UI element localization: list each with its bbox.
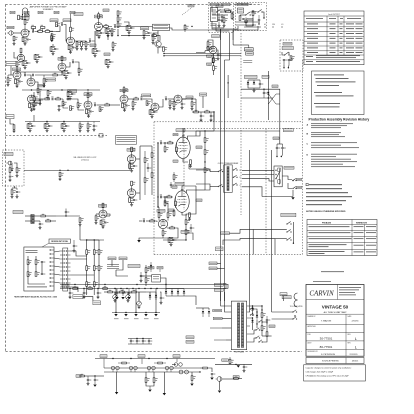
resistor R57 supply	[73, 288, 78, 290]
resistor R97 under output box	[11, 190, 13, 195]
output section dashed border right	[265, 129, 267, 255]
svg-text:80-77501: 80-77501	[320, 345, 333, 349]
tube V15 row2	[58, 63, 66, 71]
label EL34 b	[196, 199, 202, 201]
wire V10 screen	[188, 136, 197, 139]
reverb unit pin column	[51, 249, 54, 251]
wire standby to rail	[283, 65, 285, 68]
wire R17	[7, 75, 9, 78]
wire mid parts net	[173, 172, 175, 175]
diode D8 supply	[183, 291, 185, 293]
gain pot VR1	[56, 22, 58, 27]
resistor R2 plate V1A	[24, 20, 26, 25]
resistor R115 speaker net	[266, 332, 268, 337]
label left taps	[207, 47, 212, 49]
wire input lower stub	[10, 119, 14, 124]
resistor R6 shunt	[51, 34, 53, 39]
wire primary down to PT	[220, 44, 222, 301]
resistor R43 PI plate	[158, 213, 160, 218]
resistor R55 bias row	[120, 291, 125, 293]
wire reverb cable	[54, 251, 60, 252]
input jack J1	[9, 31, 13, 35]
capacitor C105 bypass	[71, 93, 73, 95]
res pair above bus 2	[40, 27, 45, 29]
wire V9B cathode	[130, 196, 135, 198]
node dots heater bus	[112, 358, 113, 359]
wire V11 grid net	[163, 196, 168, 198]
wire bias rail PI to tubes	[157, 143, 159, 207]
wire remote link	[83, 297, 93, 301]
tube heater V1 pair	[111, 366, 115, 370]
logo address text	[339, 286, 361, 289]
wire V1B plate	[16, 66, 18, 71]
heater loop arc 2	[294, 300, 298, 307]
tube heater V3 pair	[147, 366, 151, 370]
wire diag dashed pointer	[182, 8, 192, 16]
resistor R5 series	[45, 31, 50, 33]
diode D7 supply	[177, 291, 179, 293]
capacitor C27 reverb out	[65, 211, 67, 213]
resistor R102 filter	[126, 26, 128, 31]
resistor R31 emitter	[163, 47, 165, 52]
wire screen taps	[196, 131, 200, 136]
label reverb input	[13, 211, 23, 214]
label J6	[233, 376, 239, 379]
standby dashed box	[280, 40, 303, 71]
label top row b	[24, 11, 29, 14]
diode D4 bias	[155, 295, 157, 297]
output transformer T1 winding	[227, 167, 229, 191]
reverb cap Cb	[41, 273, 43, 275]
switch S4 contacts	[257, 11, 260, 14]
resistor R113 heater b	[158, 362, 163, 364]
title block divider 2	[306, 313, 364, 315]
wire logic chain	[145, 265, 147, 268]
svg-text:2/15/2015: 2/15/2015	[350, 354, 358, 356]
label footsw connections text	[107, 263, 119, 266]
resistor R105 filter	[67, 92, 69, 97]
ground cap bank	[115, 297, 118, 299]
label power switch box	[237, 3, 248, 6]
resistor R44 PI plate2	[167, 213, 169, 218]
wire reverb out to footsw	[71, 258, 87, 260]
wire PT label links	[217, 262, 221, 264]
resistor R30	[169, 101, 171, 106]
wire rail to V15	[61, 71, 63, 73]
capacitor C87 reverb	[73, 245, 75, 247]
resistor R89 filler	[112, 43, 114, 48]
wire send down to fx	[195, 99, 197, 112]
resistor R117 filter	[22, 61, 24, 66]
label input jack	[7, 26, 14, 29]
wire fb chain	[185, 217, 187, 220]
node dots tone ext	[46, 121, 47, 122]
ground V7A	[124, 108, 126, 110]
tube V1B	[13, 71, 21, 79]
heater supply parts upper	[80, 375, 85, 377]
resistor R20	[37, 88, 39, 93]
label top row a	[10, 11, 15, 14]
wire master out	[147, 99, 152, 103]
wire V14B in	[96, 213, 99, 215]
resistor R35	[16, 168, 18, 173]
bias pot VR11	[137, 301, 142, 306]
connector tab on border	[99, 134, 103, 137]
reverb resistor Ra	[35, 260, 37, 265]
resistor R70 presence	[143, 31, 145, 36]
wire chain	[144, 151, 146, 158]
diode D6 supply	[171, 291, 173, 293]
wire V9A cathode	[130, 162, 135, 164]
label TUBES heater	[282, 296, 291, 299]
wire R76	[47, 89, 49, 92]
filter caps row mid	[114, 288, 115, 289]
wire bus right	[109, 104, 120, 106]
dual wire bus to power section	[164, 53, 241, 55]
svg-text:PWR TRANS: PWR TRANS	[234, 350, 245, 353]
label send jack	[186, 96, 193, 99]
wire HT links	[263, 89, 265, 92]
reverb springs symbol	[27, 286, 47, 289]
wire vertical bus left pair	[249, 150, 251, 312]
ground R51	[79, 223, 81, 224]
standby switch S3	[283, 54, 286, 57]
resistor R206a chain	[33, 96, 35, 101]
diode D9 HT	[267, 92, 269, 94]
revision entry A text	[311, 122, 353, 125]
resistor R8 cathode V2A	[68, 45, 70, 50]
ground pair 13	[29, 129, 31, 130]
wire mains wiring	[212, 6, 217, 12]
resistor R51 reverb mix	[79, 218, 81, 223]
wire reverb extra chain	[98, 240, 100, 250]
tube V9B fx return 2	[127, 189, 135, 197]
pot VR13 standby box	[290, 56, 292, 61]
wire bias feed	[167, 227, 170, 229]
wire logic cap	[140, 272, 142, 275]
wire chain bottom grounds	[76, 46, 78, 48]
heater stubs	[112, 369, 114, 372]
label power region a	[214, 284, 223, 287]
node dots PT sec	[252, 305, 253, 306]
capacitor C34 line out	[243, 366, 245, 368]
label heater cluster c	[173, 355, 180, 358]
resistor R112 filter	[105, 60, 107, 65]
fuse F2 box	[280, 293, 287, 296]
jack output table columns	[326, 16, 328, 55]
capacitor C112 bypass	[109, 61, 111, 63]
wire mains to transformer	[221, 26, 238, 40]
node reverb	[65, 215, 66, 216]
wire R77	[132, 99, 134, 102]
wire V11 cathode	[182, 212, 187, 215]
wire R-C pair 3	[106, 27, 110, 29]
svg-text:REV: REV	[348, 334, 351, 336]
capacitor C84 mains filter	[221, 16, 223, 18]
label top row d	[54, 11, 59, 14]
power tube V11 EL34 lower	[175, 191, 189, 213]
wire V5A cathode	[30, 102, 34, 104]
resistor R77	[132, 102, 134, 107]
resistor R25 cathode V6A	[86, 109, 88, 114]
screen resistor lower	[204, 168, 206, 173]
ground input	[13, 42, 15, 43]
node dot supply2	[83, 288, 84, 289]
node dots bias rail	[157, 142, 158, 143]
wire J6 wiring	[222, 378, 234, 380]
resistor R9 chain	[76, 42, 78, 47]
svg-text:VINTAGE 50: VINTAGE 50	[322, 305, 349, 310]
wire screen feed down	[267, 104, 269, 120]
tube V9A fx return	[127, 155, 135, 163]
label GAIN pot	[50, 19, 58, 22]
power amp section dashed border bottom	[154, 254, 303, 256]
wire cluster drops	[200, 112, 202, 115]
bias label near PI	[181, 231, 189, 234]
jack J6 footswitch bottom	[217, 377, 222, 382]
wire sec out right	[253, 306, 263, 310]
node PI outs	[157, 206, 158, 207]
rectifier extra diodes PT	[256, 315, 258, 317]
capacitor C78 coupling V11	[160, 196, 162, 198]
wire C92	[258, 15, 260, 19]
resistor R39 plate V9B	[131, 181, 133, 186]
wire under output box	[11, 188, 13, 190]
resistor R37 plate	[131, 147, 133, 152]
resistor R47 line	[223, 18, 225, 23]
capacitor C70 presence	[147, 32, 149, 34]
treble pot VR2	[62, 101, 64, 106]
heater winding contacts	[255, 329, 258, 332]
svg-text:(2 Stereo): (2 Stereo)	[81, 158, 89, 161]
label BL PWR SW	[244, 75, 257, 78]
resistor R80 mains	[239, 16, 241, 20]
heater chain right tubes	[174, 363, 178, 367]
capacitor C5 coupling to V3	[89, 40, 91, 42]
wire footswitch stem	[292, 222, 294, 243]
wire res pair stubs	[33, 28, 35, 31]
wire V10 cathode	[183, 159, 188, 163]
capacitor C113 bypass	[31, 125, 33, 127]
bias pot VR10	[126, 295, 131, 300]
chassis ground text	[243, 59, 252, 62]
wire row2 plate rail	[17, 71, 62, 73]
notes list line 2	[306, 191, 348, 194]
resistor chain footswitch Rd	[93, 250, 95, 255]
label mains voltage	[212, 27, 224, 30]
ground heater balance	[148, 390, 151, 392]
resistor R82 grid bias V11	[164, 201, 166, 206]
label heater cluster b	[138, 355, 145, 358]
capacitor C117 bypass	[26, 62, 28, 64]
mains dashed box left	[209, 3, 234, 33]
wire reverb link down	[98, 280, 100, 289]
ground pair 4	[65, 76, 67, 77]
right column dashed border	[302, 60, 304, 255]
resistor R110 V10 cathode	[190, 160, 192, 165]
wire R-C pair 17	[23, 59, 27, 61]
resistor R93 logic	[145, 278, 147, 283]
supply ground row	[115, 312, 116, 313]
footswitch jack contacts	[286, 223, 289, 226]
wire fx bus vertical	[139, 146, 141, 200]
label standby switch	[282, 47, 293, 50]
wire power region links	[223, 284, 226, 289]
label LED chan	[216, 247, 224, 251]
capacitor bank C32	[116, 292, 118, 294]
power tube V10 grid resistor	[168, 142, 173, 144]
resistor R85 V8B plate	[207, 42, 209, 47]
ground R35	[16, 174, 18, 175]
wire R33	[184, 24, 186, 25]
resistor R21 cathode V5A	[29, 103, 31, 108]
wire V10 grid net	[163, 142, 168, 144]
wire chassis gnd	[248, 45, 250, 48]
output transformer primary contacts	[217, 170, 220, 173]
wire snubber	[266, 316, 268, 319]
tube V7A mixer	[120, 95, 128, 103]
wire HT to standby	[273, 89, 280, 104]
wire footswitch wiring	[253, 228, 287, 230]
wire bus into V8B	[196, 51, 205, 53]
pot VR12 tone ext	[79, 124, 81, 129]
ground pair 3	[107, 34, 109, 35]
resistor R99 V14B grid	[95, 216, 97, 221]
resistor R48 lamp	[252, 11, 254, 16]
small legend line	[321, 270, 344, 273]
wire V8B cathode	[212, 54, 214, 58]
resistor R61 sec	[261, 326, 263, 331]
wire PT sec extra	[254, 309, 258, 315]
capacitor C86 logic	[140, 275, 142, 277]
wire cluster3 up	[69, 90, 71, 91]
tube V1A 7025	[21, 29, 29, 37]
wire reverb parts	[39, 221, 41, 223]
node dots EL34 grid	[164, 142, 165, 143]
speaker jack J3	[292, 179, 295, 182]
wire V1A plate	[24, 24, 26, 29]
svg-text:NOTED UNLESS OTHERWISE SPECIFI: NOTED UNLESS OTHERWISE SPECIFIED	[306, 211, 346, 213]
svg-text:L: L	[355, 336, 357, 341]
resistor R28 cathode	[122, 103, 124, 108]
wire V15 out	[66, 62, 70, 67]
capacitor C23 standby	[283, 59, 285, 61]
PT secondary contact b	[249, 314, 252, 317]
capacitor C21 V9B	[133, 199, 135, 201]
transistor Q1 buffer	[155, 41, 161, 47]
tube heater V4 pair	[165, 366, 169, 370]
resistor R102 chain x51	[51, 36, 53, 41]
resistor R95 reverb area	[98, 266, 100, 271]
wire V6A plate	[87, 98, 89, 101]
ground V8B	[217, 57, 219, 58]
title block divider 4	[306, 331, 364, 333]
resistor R34	[9, 168, 11, 173]
impedance selector contacts	[276, 170, 277, 171]
ground PI	[137, 240, 140, 242]
resistor R86 V8B cathode	[212, 58, 214, 63]
svg-text:*NOTE SWP MUST VALUE R5, R3, R: *NOTE SWP MUST VALUE R5, R3, R10, R19 = …	[14, 296, 57, 299]
node dot supply1	[69, 288, 70, 289]
wire bias filter	[160, 292, 161, 297]
svg-text:REV: REV	[348, 343, 351, 345]
wire caps row	[128, 338, 152, 340]
wire diode bridge	[166, 288, 184, 290]
capacitor C12 tone	[58, 105, 60, 107]
resistor R17 grid	[7, 78, 9, 83]
resistor R88	[205, 111, 210, 113]
B+ rail vertical right	[195, 131, 197, 136]
labels near PT left	[209, 262, 217, 265]
power tube V11 grid network	[175, 201, 177, 206]
resistor R90 fb	[185, 220, 187, 225]
wire reverb top bus	[80, 239, 99, 241]
capacitor C28 bias	[160, 297, 162, 299]
wire caps to rail	[276, 155, 278, 157]
wire V6A cathode	[87, 108, 91, 110]
capacitor C71 input row	[32, 74, 34, 76]
resistor R40 cathode V9B	[129, 198, 131, 203]
resistor R76 bus drop	[47, 91, 49, 96]
heater row right extension	[203, 367, 208, 369]
ground C12	[58, 107, 60, 109]
wire R78	[173, 99, 175, 102]
node dots mains	[245, 21, 246, 22]
tube V7B driver	[151, 103, 159, 111]
wire heater right	[172, 364, 176, 366]
labels near PT left b	[209, 267, 217, 270]
capacitor C81 V8B	[217, 54, 219, 56]
label V9A	[127, 149, 135, 152]
ground pair 11	[94, 54, 96, 55]
resistor R103 filter	[105, 29, 107, 34]
notes list line 4	[306, 199, 346, 202]
ground C35	[93, 385, 96, 387]
resistor R108 filter	[168, 238, 170, 243]
wire vertical bus right	[271, 150, 273, 312]
label V11 pin	[173, 160, 178, 162]
label cluster	[200, 93, 207, 96]
label mains extra b	[247, 19, 253, 21]
resistor R72 mid row	[43, 79, 45, 84]
capacitor C76 HT	[263, 92, 265, 94]
tube V8B bias osc	[209, 46, 217, 54]
resistor R32 base	[152, 36, 154, 41]
resistor R112 heater a	[122, 362, 127, 364]
ground line filter	[218, 24, 220, 25]
resistor R79 send load	[191, 102, 193, 107]
standby note symbol	[306, 184, 308, 186]
capacitor C75 mains	[242, 18, 244, 20]
wire R1 down	[13, 41, 15, 43]
ground chain 6	[33, 108, 35, 109]
label supply tap 1	[62, 285, 69, 288]
node dots caps row	[136, 338, 137, 339]
ground pair 9	[36, 60, 38, 61]
label relay channel	[221, 232, 230, 235]
ground logic	[137, 240, 140, 242]
capacitor C8 V1B	[18, 80, 20, 82]
label V12 pin	[172, 186, 177, 188]
diode D10 logic	[150, 265, 152, 267]
wire impedance to jacks	[282, 176, 292, 180]
node reverb bus	[86, 239, 87, 240]
resistor R114 input lower	[13, 125, 15, 130]
power transformer T3 box	[231, 301, 246, 350]
capacitor C19	[9, 175, 11, 177]
label PI input	[168, 209, 174, 212]
wire bus y35.6 b	[156, 36, 160, 41]
